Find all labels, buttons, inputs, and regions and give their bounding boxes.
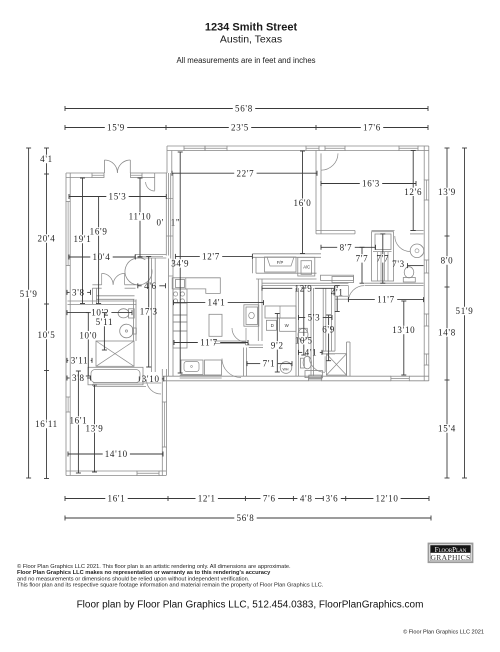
svg-text:Austin, Texas: Austin, Texas: [220, 34, 282, 46]
svg-text:20'4: 20'4: [38, 234, 56, 244]
dim col left 4'1 20'4 10'5 16'11: [46, 148, 48, 155]
svg-text:3'6: 3'6: [326, 494, 339, 504]
wall bedroom2 south: [316, 230, 355, 232]
hall cabinet niche: [321, 275, 354, 280]
svg-text:0': 0': [157, 218, 165, 228]
wall hall doors north: [92, 284, 101, 286]
wall bedroom2 west: [315, 151, 317, 234]
kitchen range: [173, 289, 187, 303]
wall foyer-east cavity pair: [165, 173, 167, 256]
wall laundry west x296: [295, 288, 297, 376]
dim 3'10 bedroom1 door: [138, 378, 140, 380]
svg-text:D: D: [271, 323, 274, 328]
svg-text:5'11: 5'11: [96, 317, 114, 327]
svg-text:All measurements are in feet a: All measurements are in feet and inches: [176, 56, 315, 65]
master bedroom door swing: [348, 286, 364, 302]
svg-text:3'8: 3'8: [72, 288, 85, 298]
powder lavatory: [410, 244, 424, 258]
svg-text:14'8: 14'8: [438, 328, 456, 338]
svg-text:and no measurements or dimensi: and no measurements or dimensions should…: [17, 576, 250, 582]
svg-text:12'1: 12'1: [198, 494, 216, 504]
svg-text:11'7: 11'7: [377, 295, 395, 305]
wall foyer south: [135, 254, 166, 256]
svg-text:11'7: 11'7: [200, 338, 218, 348]
wall hall south vanity row: [180, 374, 222, 376]
kitchen counter peninsula: [172, 278, 220, 294]
master toilet: [307, 361, 309, 363]
dim row bottom 16'1 12'1 7'6 4'8 3'6 12'10: [65, 498, 105, 500]
dim 51'9 left overall: [28, 148, 30, 290]
bath1 shower: [96, 341, 134, 366]
kitchen island table: [209, 314, 222, 336]
toiletroom toilet2: [303, 356, 311, 369]
svg-text:16'3: 16'3: [362, 179, 380, 189]
toiletroom toilet: [298, 329, 308, 341]
hallbath vanity: [181, 360, 203, 375]
bath1 bathtub: [88, 367, 143, 385]
dim 16'3 bedroom2: [321, 183, 360, 185]
bath1 toilet: [118, 309, 129, 318]
svg-text:7'7: 7'7: [376, 254, 389, 264]
svg-text:1234 Smith Street: 1234 Smith Street: [205, 22, 298, 34]
svg-text:13'10: 13'10: [392, 325, 415, 335]
wall toiletroom west: [243, 348, 245, 377]
dim 56'8 bottom overall: [65, 517, 234, 519]
dim 8'7 hall upper: [321, 246, 337, 248]
dim 7'7 hall a: [361, 247, 363, 254]
svg-text:10'4: 10'4: [93, 252, 111, 262]
svg-text:13'9: 13'9: [86, 424, 104, 434]
dim 19'1 wing: [82, 178, 84, 235]
svg-text:12'6: 12'6: [404, 187, 422, 197]
dim 16'1 bedroom1: [77, 371, 79, 416]
svg-text:14'10: 14'10: [105, 449, 128, 459]
dim row bottom ticks: [167, 496, 169, 501]
dim 12'9 kitchen: [262, 287, 292, 289]
svg-text:4'8: 4'8: [300, 494, 313, 504]
wall hall stub: [91, 288, 93, 304]
wall master corridor A: [322, 288, 324, 351]
dim 7'7 hall b: [382, 234, 384, 254]
svg-text:56'8: 56'8: [235, 104, 253, 114]
bedroom2 door swing: [320, 153, 322, 170]
dim col left ticks: [44, 173, 49, 175]
dim 51'9 right overall: [464, 148, 466, 307]
laundry dryer: [266, 320, 276, 330]
svg-text:7'6: 7'6: [263, 494, 276, 504]
dim 13'9 bedroom1: [94, 385, 96, 424]
wall hearth band: [256, 272, 317, 274]
dim 13'10 master bedroom: [403, 301, 405, 326]
svg-text:7'3: 7'3: [392, 259, 405, 269]
svg-text:15'4: 15'4: [438, 424, 456, 434]
wall step top-left corner: [166, 146, 168, 173]
svg-text:8'7: 8'7: [340, 242, 353, 252]
wall wing bottom: [66, 470, 137, 472]
svg-text:14'1: 14'1: [208, 298, 226, 308]
svg-text:17'6: 17'6: [363, 123, 381, 133]
svg-text:11'10: 11'10: [129, 212, 152, 222]
AC closet: [298, 257, 315, 276]
svg-text:4'6: 4'6: [144, 281, 157, 291]
dim row ticks top: [165, 125, 167, 130]
svg-text:12'10: 12'10: [375, 494, 398, 504]
dim 10'2 bath1: [67, 312, 89, 314]
master shower: [326, 354, 346, 375]
wall masterbath south jog: [214, 340, 246, 342]
svg-text:15'9: 15'9: [107, 123, 125, 133]
svg-text:56'8: 56'8: [237, 513, 255, 523]
svg-text:1": 1": [171, 218, 181, 228]
svg-text:51'9: 51'9: [456, 306, 474, 316]
closet hall linen: [372, 232, 394, 281]
masterbath lower vanity: [305, 371, 323, 378]
svg-text:6'9: 6'9: [322, 324, 335, 334]
wall bath1 east: [133, 299, 135, 341]
svg-text:8'0: 8'0: [441, 256, 454, 266]
svg-text:F/P: F/P: [277, 260, 284, 265]
master shower door swing: [309, 356, 325, 372]
svg-text:17'3: 17'3: [140, 307, 158, 317]
svg-text:4'1: 4'1: [40, 154, 53, 164]
masterbath vanity: [244, 305, 259, 326]
dim 56'8 top overall: [65, 108, 233, 110]
dim 3'11 bath1: [67, 359, 68, 361]
svg-text:22'7: 22'7: [236, 168, 254, 178]
wall exterior right: [423, 146, 425, 180]
dim row 15'9 23'5 17'6: [65, 127, 105, 129]
dim 3'8 wing a: [67, 291, 70, 293]
svg-text:10'5: 10'5: [38, 330, 56, 340]
dim col right 13'9 8'0 14'8 15'4: [446, 148, 448, 188]
svg-text:51'9: 51'9: [20, 289, 38, 299]
wall kitchen west: [168, 259, 170, 377]
wall master NW jog: [335, 295, 348, 297]
fireplace F/P: [265, 257, 297, 272]
svg-text:5'3: 5'3: [308, 313, 321, 323]
wall bath1 south / bedroom1 north: [93, 382, 161, 384]
bedroom1 door swing: [147, 380, 162, 395]
wall greatroom south band: [252, 253, 321, 255]
wall hall north: [262, 282, 348, 284]
wall master corridor B: [331, 288, 333, 351]
dim 7'1 laundry: [247, 363, 260, 365]
laundry counter: [265, 306, 296, 318]
wall greatroom SE corner: [251, 257, 253, 273]
wall bath1 north inner: [96, 295, 134, 297]
svg-text:7'1: 7'1: [263, 359, 276, 369]
dim 34'9 center: [179, 152, 181, 259]
svg-text:4'1: 4'1: [331, 287, 344, 297]
svg-text:15'3: 15'3: [109, 192, 127, 202]
dim 11'7 master bedroom: [348, 299, 374, 301]
svg-text:© Floor Plan Graphics LLC 2021: © Floor Plan Graphics LLC 2021: [403, 629, 484, 636]
dim 10'5 laundry: [303, 288, 305, 336]
wall wing top with entry: [66, 172, 92, 174]
dim 9'2 laundry: [276, 314, 278, 342]
dim 4'6 wing hall: [138, 285, 142, 287]
svg-text:This floor plan and its respec: This floor plan and its respective squar…: [17, 583, 324, 589]
svg-text:Floor Plan Graphics LLC makes: Floor Plan Graphics LLC makes no represe…: [17, 570, 271, 576]
wall master corridor cap: [323, 350, 335, 352]
dim 4'1 shower room: [299, 351, 303, 353]
wall master bedroom west: [346, 342, 348, 376]
wall wing hall east x151: [151, 258, 153, 372]
svg-text:A/C: A/C: [303, 265, 310, 270]
svg-text:3'11: 3'11: [71, 356, 89, 366]
wall exterior top (main): [167, 145, 184, 147]
masterbath door swing: [232, 328, 246, 342]
svg-text:WH: WH: [283, 368, 289, 372]
wall exterior left (wing west): [65, 173, 67, 202]
laundry washer: [280, 318, 297, 331]
dim 22'7 great room: [172, 172, 234, 174]
hallbath door swing: [222, 359, 241, 378]
dim 3'8 tub: [67, 377, 70, 379]
svg-text:© Floor Plan Graphics LLC 2021: © Floor Plan Graphics LLC 2021. This flo…: [17, 563, 291, 570]
wall laundry east x311: [310, 288, 312, 376]
svg-text:19'1: 19'1: [74, 234, 92, 244]
svg-text:16'9: 16'9: [90, 227, 108, 237]
svg-text:4'1: 4'1: [305, 348, 318, 358]
kitchen fridge: [173, 303, 187, 315]
entry double door swing: [104, 160, 106, 173]
dim 11'10 foyer: [139, 178, 141, 212]
powder toilet: [404, 267, 414, 278]
svg-text:Floor plan by Floor Plan Graph: Floor plan by Floor Plan Graphics LLC, 5…: [77, 600, 424, 611]
dim 15'3 foyer: [69, 196, 106, 198]
dim 6'9 corridor: [328, 315, 330, 325]
svg-text:10'5: 10'5: [295, 335, 313, 345]
svg-text:13'9: 13'9: [438, 187, 456, 197]
dim col right ticks: [445, 235, 450, 237]
powder door swing: [395, 236, 411, 252]
svg-text:GRAPHICS: GRAPHICS: [431, 553, 471, 562]
dim 11'7 hall lower: [174, 342, 198, 344]
dim 12'6 bedroom2: [412, 151, 414, 188]
dim 14'1 hall: [174, 302, 206, 304]
logo floorplan graphics box: [429, 544, 473, 563]
svg-text:3'10: 3'10: [142, 374, 160, 384]
dim 14'10 bedroom1: [68, 453, 103, 455]
wall wing east: [161, 369, 163, 402]
dim 10'4 wing hall: [69, 256, 90, 258]
wall exterior bottom (main): [163, 375, 309, 377]
svg-text:10'0: 10'0: [79, 330, 97, 340]
svg-text:16'0: 16'0: [294, 198, 312, 208]
svg-text:9'2: 9'2: [271, 341, 284, 351]
hall double door swing: [102, 273, 113, 284]
svg-text:12'7: 12'7: [202, 252, 220, 262]
foyer swing door: [125, 258, 152, 285]
dim 4'1 hall: [336, 286, 338, 289]
water heater WH: [280, 362, 292, 374]
bath1 sink: [120, 324, 134, 338]
svg-text:23'5: 23'5: [231, 123, 249, 133]
dim 16'9 wing: [98, 197, 100, 228]
entry closet door swing: [146, 182, 155, 191]
dim 16'0 great room: [302, 151, 304, 199]
dim 12'7 great room south: [175, 255, 199, 257]
dim 10'0 bath1: [87, 313, 89, 331]
dim 5'11 bath1: [103, 313, 105, 318]
svg-text:16'1: 16'1: [108, 494, 126, 504]
dim 5'3 toiletroom: [299, 317, 306, 319]
hallbath cabinet: [205, 360, 222, 375]
dim 17'3 wing hall: [148, 257, 150, 308]
svg-text:34'9: 34'9: [171, 259, 189, 269]
svg-text:16'11: 16'11: [35, 419, 58, 429]
svg-text:7'7: 7'7: [356, 254, 369, 264]
wall bath1 north outer: [68, 300, 137, 302]
wall kitchen NE: [257, 279, 259, 341]
wall entry closet jog: [154, 173, 156, 191]
